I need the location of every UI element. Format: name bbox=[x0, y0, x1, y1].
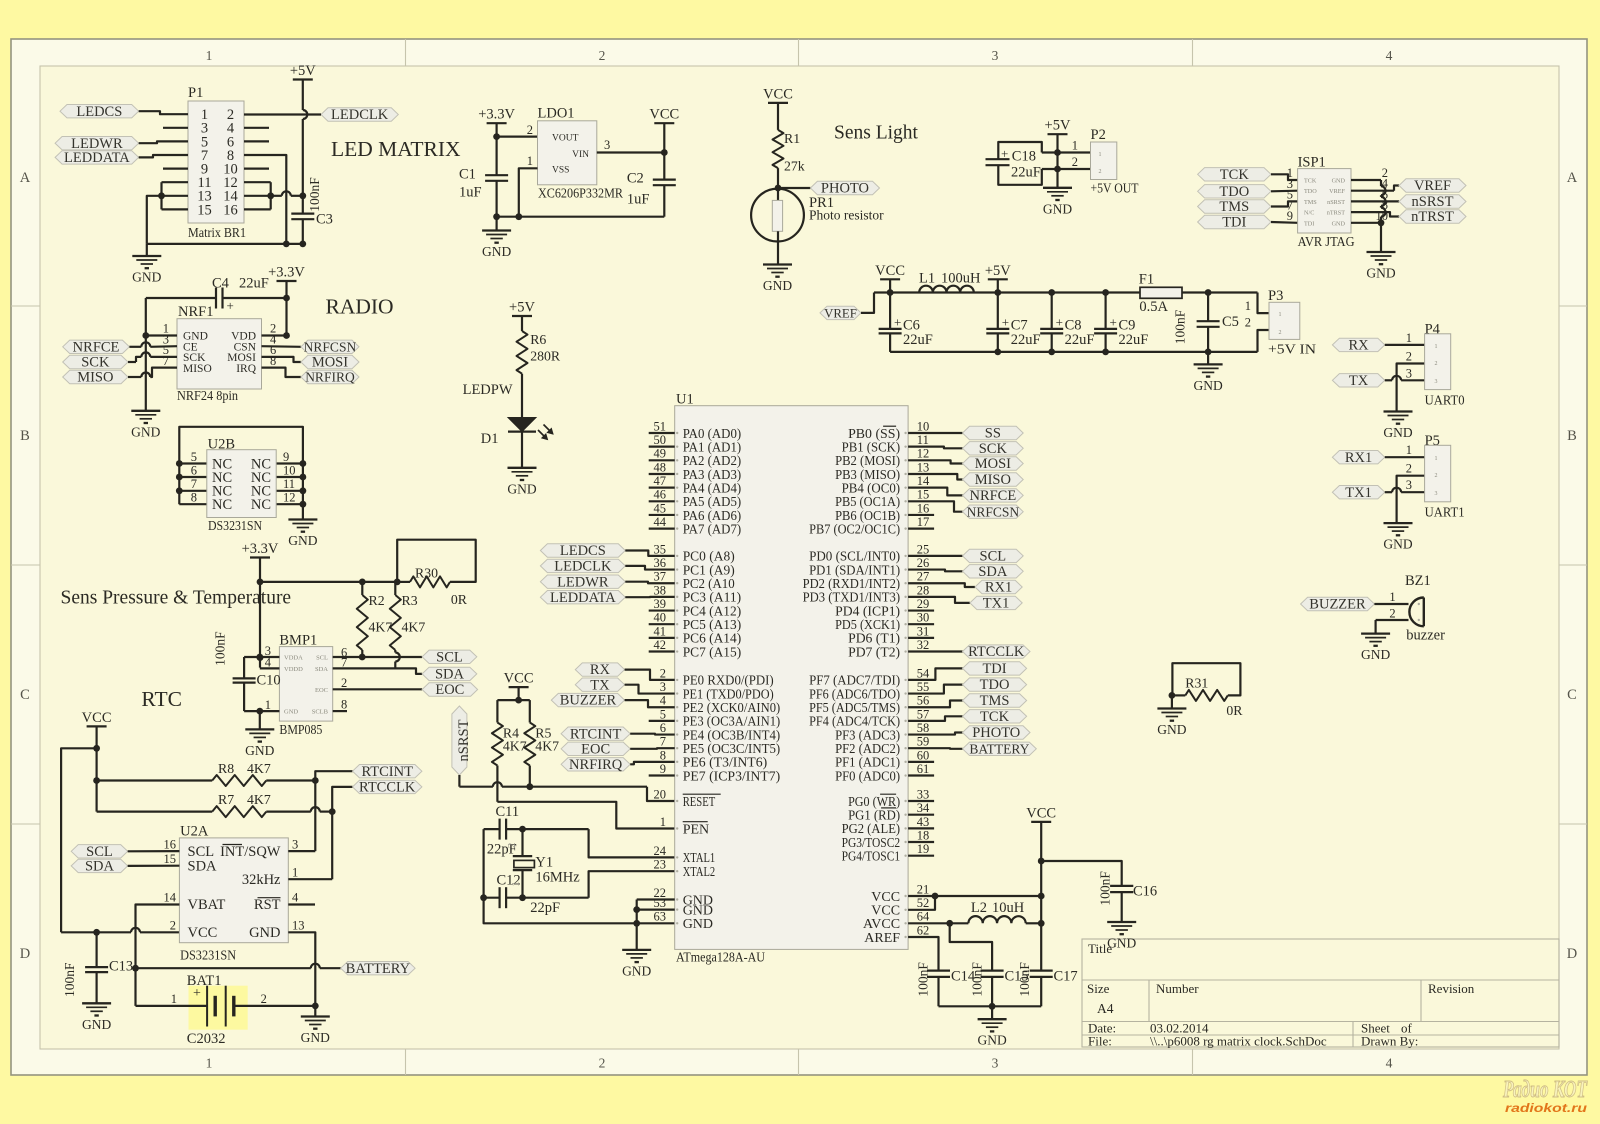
wire crystal top node bbox=[484, 828, 500, 830]
wire BMP1 VDDD pin4 bbox=[260, 667, 280, 669]
svg-text:+: + bbox=[894, 315, 901, 330]
svg-text:2: 2 bbox=[1406, 462, 1412, 476]
wire EOC net bbox=[333, 688, 422, 690]
svg-text:3: 3 bbox=[1435, 379, 1438, 385]
svg-text:L1: L1 bbox=[919, 271, 935, 287]
svg-text:SDA: SDA bbox=[978, 564, 1008, 580]
svg-text:7: 7 bbox=[660, 735, 666, 749]
svg-text:SCL: SCL bbox=[188, 844, 215, 860]
ground bbox=[146, 244, 148, 256]
wire VCC to R4 R5 bbox=[517, 687, 519, 700]
svg-text:SCL: SCL bbox=[86, 844, 113, 860]
svg-text:11: 11 bbox=[283, 477, 295, 491]
wire INT/SQW to RTCINT bbox=[288, 850, 315, 852]
svg-text:NC: NC bbox=[251, 497, 271, 513]
capacitor C1 bbox=[485, 174, 508, 176]
svg-text:15: 15 bbox=[197, 202, 212, 218]
svg-text:1: 1 bbox=[510, 881, 522, 887]
svg-text:280R: 280R bbox=[530, 349, 561, 364]
svg-text:SDA: SDA bbox=[435, 667, 465, 683]
svg-text:GND: GND bbox=[1157, 722, 1186, 737]
ground bbox=[496, 217, 498, 231]
svg-text:SDA: SDA bbox=[85, 859, 115, 875]
net label TX1 bbox=[1332, 486, 1384, 499]
svg-text:24: 24 bbox=[654, 844, 667, 858]
svg-text:10: 10 bbox=[283, 463, 296, 477]
svg-text:2: 2 bbox=[1389, 606, 1395, 620]
svg-text:3: 3 bbox=[1406, 366, 1412, 380]
net label SCL bbox=[71, 845, 128, 858]
svg-text:35: 35 bbox=[654, 542, 667, 556]
net label SCL bbox=[422, 650, 477, 663]
svg-text:TMS: TMS bbox=[980, 693, 1010, 709]
svg-text:0R: 0R bbox=[451, 592, 468, 607]
svg-text:GND: GND bbox=[1383, 425, 1412, 440]
wire TDI to ISP1.9 bbox=[1271, 221, 1298, 224]
svg-text:21: 21 bbox=[917, 882, 930, 896]
svg-text:PE7 (ICP3/INT7): PE7 (ICP3/INT7) bbox=[683, 769, 781, 784]
svg-text:60: 60 bbox=[917, 748, 930, 762]
net label SCK bbox=[908, 447, 962, 449]
wire TX to P4.3 bbox=[1385, 379, 1392, 381]
svg-text:MISO: MISO bbox=[77, 370, 113, 386]
svg-text:SCK: SCK bbox=[979, 441, 1008, 457]
svg-text:GND: GND bbox=[131, 424, 160, 439]
svg-text:R3: R3 bbox=[402, 593, 418, 608]
svg-text:100uH: 100uH bbox=[941, 271, 981, 287]
svg-text:37: 37 bbox=[654, 570, 667, 584]
svg-text:27: 27 bbox=[917, 570, 930, 584]
net label TX bbox=[1332, 374, 1384, 387]
power rail +5V bbox=[874, 291, 1140, 293]
svg-text:100nF: 100nF bbox=[62, 962, 77, 997]
svg-text:P3: P3 bbox=[1268, 288, 1283, 304]
LED D1 bbox=[508, 418, 536, 432]
svg-text:D: D bbox=[1567, 946, 1577, 962]
svg-text:R1: R1 bbox=[784, 131, 800, 146]
svg-text:EOC: EOC bbox=[315, 687, 328, 694]
svg-text:R6: R6 bbox=[530, 332, 546, 347]
svg-text:3: 3 bbox=[604, 138, 610, 152]
svg-text:SCL: SCL bbox=[316, 655, 328, 662]
svg-text:20: 20 bbox=[654, 787, 667, 801]
net label nTRST bbox=[1351, 212, 1399, 216]
wire LEDCS to P1.1 bbox=[139, 111, 188, 114]
resistor R7 4K7 bbox=[97, 810, 213, 812]
svg-text:26: 26 bbox=[917, 556, 930, 570]
svg-text:VOUT: VOUT bbox=[552, 134, 579, 144]
svg-text:NRFIRQ: NRFIRQ bbox=[305, 370, 355, 385]
svg-text:DS3231SN: DS3231SN bbox=[208, 519, 262, 534]
svg-text:BMP085: BMP085 bbox=[279, 723, 322, 738]
svg-text:SCL: SCL bbox=[980, 549, 1007, 565]
svg-text:VCC: VCC bbox=[1026, 805, 1056, 821]
svg-text:57: 57 bbox=[917, 707, 930, 721]
svg-text:R8: R8 bbox=[218, 761, 234, 776]
svg-text:Revision: Revision bbox=[1428, 981, 1475, 996]
svg-text:C2: C2 bbox=[627, 171, 644, 187]
svg-text:2: 2 bbox=[170, 919, 176, 933]
svg-text:27k: 27k bbox=[784, 159, 805, 174]
svg-text:9: 9 bbox=[660, 762, 666, 776]
wire MISO to pin7 bbox=[128, 376, 141, 378]
wire SDA net bbox=[333, 668, 422, 674]
wire VDD bbox=[262, 334, 287, 336]
capacitor C14 100nF bbox=[927, 969, 950, 971]
svg-text:34: 34 bbox=[917, 801, 930, 815]
wire rail to P3.1 bbox=[1258, 293, 1270, 314]
crystal Y1 16MHz bbox=[521, 829, 523, 856]
net label NRFCE bbox=[908, 488, 962, 496]
capacitor C3 bbox=[291, 213, 314, 215]
net label SDA bbox=[422, 667, 477, 680]
wire ISP GND vertical bbox=[1351, 179, 1381, 181]
svg-text:10uH: 10uH bbox=[992, 900, 1025, 916]
svg-text:C16: C16 bbox=[1133, 884, 1157, 900]
wire crystal ground leg bbox=[484, 898, 675, 924]
wire RX1 to P5.1 bbox=[1385, 456, 1425, 458]
svg-text:3: 3 bbox=[992, 1056, 999, 1071]
wire TX to PE1 bbox=[625, 685, 675, 694]
svg-text:22uF: 22uF bbox=[1011, 165, 1041, 181]
svg-text:LEDCS: LEDCS bbox=[76, 104, 122, 120]
svg-text:+5V: +5V bbox=[290, 63, 316, 79]
svg-text:100nF: 100nF bbox=[1097, 871, 1112, 906]
net label RX bbox=[1332, 338, 1384, 351]
wire LEDDATA to PC3 bbox=[625, 596, 674, 599]
zone ticks bbox=[405, 39, 407, 66]
svg-text:BATTERY: BATTERY bbox=[969, 741, 1029, 756]
capacitor C11 22pF bbox=[499, 819, 501, 840]
svg-text:C4: C4 bbox=[212, 276, 230, 292]
wire P5.2 to ground bbox=[1397, 476, 1425, 523]
svg-text:PG4/TOSC1: PG4/TOSC1 bbox=[842, 850, 901, 865]
wire P1 right pins 12-14-16 bus bbox=[244, 181, 271, 183]
svg-text:2: 2 bbox=[1406, 350, 1412, 364]
svg-text:4: 4 bbox=[1386, 48, 1393, 63]
net label nSRST vertical bbox=[452, 706, 467, 775]
svg-text:49: 49 bbox=[654, 447, 667, 461]
wire VCC vertical to C17 bbox=[1040, 822, 1042, 971]
svg-text:GND: GND bbox=[301, 1030, 330, 1045]
svg-text:R2: R2 bbox=[369, 593, 385, 608]
net label LEDWR bbox=[55, 137, 139, 150]
svg-text:TDO: TDO bbox=[980, 677, 1010, 693]
svg-text:Size: Size bbox=[1087, 981, 1110, 996]
svg-text:7: 7 bbox=[341, 656, 347, 670]
svg-text:+3.3V: +3.3V bbox=[268, 265, 305, 281]
wire U2B top bridge bbox=[179, 427, 303, 519]
svg-text:GND: GND bbox=[763, 278, 792, 293]
svg-text:EOC: EOC bbox=[581, 741, 610, 757]
svg-text:RX1: RX1 bbox=[985, 580, 1012, 596]
net label VREF bbox=[1351, 190, 1394, 192]
svg-text:NRFCE: NRFCE bbox=[969, 488, 1016, 504]
svg-text:GND: GND bbox=[1107, 936, 1136, 951]
svg-text:LEDCLK: LEDCLK bbox=[331, 107, 389, 123]
svg-text:RX: RX bbox=[1349, 338, 1370, 354]
net label EOC bbox=[422, 683, 478, 696]
svg-text:3: 3 bbox=[1435, 491, 1438, 497]
svg-text:XTAL1: XTAL1 bbox=[683, 851, 716, 866]
wire NRFIRQ to PE6 bbox=[630, 762, 675, 764]
svg-text:1: 1 bbox=[1279, 312, 1282, 318]
svg-text:47: 47 bbox=[654, 474, 667, 488]
svg-text:4: 4 bbox=[660, 694, 667, 708]
svg-text:2: 2 bbox=[599, 1056, 606, 1071]
svg-text:TCK: TCK bbox=[980, 709, 1010, 725]
net label nSRST bbox=[1351, 200, 1399, 202]
net label RTCINT bbox=[315, 771, 352, 780]
wire +5V to P2.1 bbox=[1056, 134, 1058, 169]
wire TDO to ISP1.3 bbox=[1271, 190, 1298, 193]
net label TMS bbox=[1198, 200, 1271, 213]
svg-text:buzzer: buzzer bbox=[1406, 628, 1445, 644]
svg-text:D1: D1 bbox=[481, 431, 499, 447]
svg-text:1: 1 bbox=[1245, 299, 1251, 313]
svg-text:41: 41 bbox=[654, 624, 667, 638]
ground bbox=[1171, 695, 1173, 708]
svg-text:55: 55 bbox=[917, 680, 930, 694]
svg-text:46: 46 bbox=[654, 488, 667, 502]
ground bbox=[991, 1006, 993, 1019]
svg-text:VDDA: VDDA bbox=[284, 655, 303, 662]
svg-text:45: 45 bbox=[654, 501, 667, 515]
svg-text:C: C bbox=[1567, 687, 1577, 703]
svg-text:16MHz: 16MHz bbox=[535, 870, 580, 886]
wire RX to PE0 bbox=[625, 670, 675, 680]
svg-text:62: 62 bbox=[917, 923, 930, 937]
ground bbox=[1043, 187, 1072, 189]
svg-text:1: 1 bbox=[1072, 139, 1078, 153]
net label NRFCSN bbox=[262, 345, 301, 348]
capacitor C17 100nF bbox=[1030, 969, 1053, 971]
svg-text:100nF: 100nF bbox=[1017, 962, 1032, 997]
wire TMS to ISP1.5 bbox=[1271, 201, 1298, 206]
wire LEDCLK to PC1 bbox=[625, 566, 674, 570]
svg-text:36: 36 bbox=[654, 556, 667, 570]
resistor R30 0R loop bbox=[397, 581, 410, 583]
svg-text:11: 11 bbox=[917, 433, 929, 447]
svg-text:43: 43 bbox=[917, 815, 930, 829]
photo resistor PR1 bbox=[751, 189, 804, 242]
svg-text:22pF: 22pF bbox=[530, 900, 560, 916]
svg-text:VCC: VCC bbox=[875, 263, 905, 279]
svg-text:52: 52 bbox=[917, 896, 930, 910]
svg-text:C18: C18 bbox=[1012, 149, 1036, 165]
svg-text:GND: GND bbox=[1383, 537, 1412, 552]
pin stub RST bbox=[288, 903, 315, 905]
svg-text:C17: C17 bbox=[1054, 969, 1078, 985]
net label PHOTO bbox=[778, 187, 810, 189]
wire XTAL1 bbox=[589, 829, 675, 857]
net label RTCINT bbox=[561, 727, 630, 740]
ground bbox=[1384, 522, 1413, 524]
net label LEDDATA bbox=[55, 151, 139, 164]
svg-text:NRFIRQ: NRFIRQ bbox=[569, 757, 623, 773]
net label PHOTO bbox=[908, 733, 962, 735]
wire LEDCS to PC0 bbox=[625, 551, 674, 556]
svg-text:Sens Pressure & Temperature: Sens Pressure & Temperature bbox=[61, 588, 292, 609]
svg-text:100nF: 100nF bbox=[307, 177, 322, 212]
wire P2.2 to ground bbox=[1042, 168, 1091, 170]
svg-text:C1: C1 bbox=[459, 167, 476, 183]
svg-text:1: 1 bbox=[1406, 443, 1412, 457]
svg-text:nSRST: nSRST bbox=[456, 719, 472, 761]
capacitor C16 100nF bbox=[1110, 885, 1133, 887]
svg-text:14: 14 bbox=[164, 891, 177, 905]
svg-text:SS: SS bbox=[985, 426, 1001, 442]
svg-text:9: 9 bbox=[283, 450, 289, 464]
net label NRFCSN bbox=[908, 501, 962, 511]
ground bbox=[508, 467, 537, 469]
capacitor C12 22pF bbox=[499, 887, 501, 908]
svg-text:1: 1 bbox=[206, 1056, 213, 1071]
svg-text:Радио КОТ: Радио КОТ bbox=[1502, 1077, 1588, 1103]
svg-text:VCC: VCC bbox=[649, 107, 679, 123]
svg-text:29: 29 bbox=[917, 597, 930, 611]
svg-text:42: 42 bbox=[654, 638, 667, 652]
svg-text:2: 2 bbox=[341, 676, 347, 690]
svg-text:BZ1: BZ1 bbox=[1405, 573, 1431, 589]
pin stub SCLB bbox=[333, 710, 347, 712]
svg-text:13: 13 bbox=[917, 460, 930, 474]
capacitor C15 100nF bbox=[981, 969, 1004, 971]
svg-text:R7: R7 bbox=[218, 792, 234, 807]
svg-text:+: + bbox=[193, 986, 201, 1001]
net label NRFIRQ bbox=[262, 368, 301, 377]
wire XTAL2 bbox=[589, 871, 675, 898]
svg-text:1uF: 1uF bbox=[627, 192, 650, 208]
svg-text:TDO: TDO bbox=[1304, 188, 1317, 195]
svg-text:GND: GND bbox=[1361, 647, 1390, 662]
svg-text:SDA: SDA bbox=[188, 858, 218, 874]
net label TDO bbox=[908, 685, 962, 694]
net label RTCCLK bbox=[908, 650, 962, 652]
svg-text:TX1: TX1 bbox=[1345, 485, 1372, 501]
svg-text:100nF: 100nF bbox=[212, 631, 227, 666]
svg-text:100nF: 100nF bbox=[915, 962, 930, 997]
svg-text:LED MATRIX: LED MATRIX bbox=[331, 137, 461, 161]
svg-text:GND: GND bbox=[1043, 201, 1072, 216]
svg-text:1uF: 1uF bbox=[459, 185, 482, 201]
svg-text:1: 1 bbox=[171, 992, 177, 1006]
ground bus under P1 bbox=[147, 243, 303, 245]
svg-text:NRF1: NRF1 bbox=[178, 304, 213, 320]
svg-text:31: 31 bbox=[917, 624, 930, 638]
svg-text:SCLB: SCLB bbox=[312, 709, 329, 716]
svg-text:33: 33 bbox=[917, 787, 930, 801]
wire SCK to pin5 bbox=[128, 361, 136, 363]
svg-text:23: 23 bbox=[654, 858, 667, 872]
svg-text:NRFCE: NRFCE bbox=[73, 339, 120, 355]
svg-text:TX: TX bbox=[1349, 373, 1369, 389]
svg-text:Drawn By:: Drawn By: bbox=[1361, 1034, 1418, 1049]
svg-text:GND: GND bbox=[245, 743, 274, 758]
svg-text:D: D bbox=[20, 946, 30, 962]
svg-text:C11: C11 bbox=[496, 804, 520, 820]
svg-text:Number: Number bbox=[1156, 981, 1199, 996]
svg-text:4K7: 4K7 bbox=[503, 739, 527, 754]
svg-text:GND: GND bbox=[507, 481, 536, 496]
svg-text:56: 56 bbox=[917, 694, 930, 708]
U1 port A pins bbox=[649, 432, 675, 434]
wire VCC pin52 step bbox=[908, 896, 935, 910]
wire TCK to ISP1.1 bbox=[1271, 174, 1298, 180]
wire AVCC branch to C15 bbox=[950, 923, 992, 970]
net label BUZZER bbox=[551, 693, 624, 706]
net label SCL bbox=[908, 555, 962, 557]
svg-text:MISO: MISO bbox=[183, 363, 212, 375]
svg-text:Sens Light: Sens Light bbox=[834, 123, 919, 144]
svg-text:+: + bbox=[1110, 315, 1117, 330]
net label TDI bbox=[1198, 215, 1271, 228]
svg-text:VSS: VSS bbox=[552, 166, 569, 176]
svg-text:63: 63 bbox=[654, 910, 667, 924]
capacitor C13 100nF bbox=[95, 932, 97, 967]
svg-text:TX: TX bbox=[590, 677, 610, 693]
svg-text:1: 1 bbox=[660, 815, 666, 829]
svg-text:LEDPW: LEDPW bbox=[463, 382, 513, 398]
wire BUZZER to BZ1.1 bbox=[1374, 603, 1408, 605]
svg-text:2: 2 bbox=[1099, 169, 1102, 175]
svg-text:+5V: +5V bbox=[509, 300, 535, 316]
svg-text:TMS: TMS bbox=[1219, 199, 1249, 215]
svg-text:B: B bbox=[1567, 428, 1577, 444]
net label SCK bbox=[63, 355, 128, 368]
svg-text:50: 50 bbox=[654, 433, 667, 447]
svg-text:AVR JTAG: AVR JTAG bbox=[1298, 235, 1355, 250]
svg-text:VBAT: VBAT bbox=[188, 897, 226, 913]
svg-text:VREF: VREF bbox=[1329, 188, 1345, 195]
svg-text:L2: L2 bbox=[971, 900, 987, 916]
svg-text:10: 10 bbox=[917, 419, 930, 433]
svg-text:PD7 (T2): PD7 (T2) bbox=[848, 645, 900, 660]
capacitor C4 22uF bbox=[146, 297, 216, 299]
svg-text:PA7 (AD7): PA7 (AD7) bbox=[683, 522, 742, 537]
wire +5V vertical with hop over LEDCLK bbox=[302, 80, 304, 111]
svg-text:LEDWR: LEDWR bbox=[557, 574, 609, 590]
svg-text:GND: GND bbox=[284, 709, 298, 716]
svg-text:File:: File: bbox=[1088, 1034, 1112, 1049]
wire ground bus bbox=[939, 1005, 1042, 1007]
svg-text:R30: R30 bbox=[415, 566, 438, 581]
net label LEDCLK bbox=[540, 559, 625, 572]
capacitor C9 22uF bbox=[1104, 293, 1106, 329]
svg-text:UART1: UART1 bbox=[1425, 506, 1465, 521]
svg-text:2: 2 bbox=[1245, 316, 1251, 330]
svg-text:DS3231SN: DS3231SN bbox=[180, 949, 236, 964]
svg-text:4: 4 bbox=[292, 891, 299, 905]
ground bbox=[131, 410, 160, 412]
svg-text:2: 2 bbox=[1279, 330, 1282, 336]
svg-text:22uF: 22uF bbox=[1065, 332, 1095, 348]
svg-text:+5V OUT: +5V OUT bbox=[1091, 182, 1139, 197]
svg-text:TMS: TMS bbox=[1304, 199, 1317, 206]
svg-text:14: 14 bbox=[917, 474, 930, 488]
svg-text:PF0 (ADC0): PF0 (ADC0) bbox=[835, 769, 900, 784]
svg-text:F1: F1 bbox=[1139, 272, 1154, 288]
wire VCC vertical bbox=[95, 726, 97, 811]
wire GND pin13 down bbox=[288, 932, 315, 1006]
svg-text:RTCINT: RTCINT bbox=[361, 764, 413, 780]
svg-text:44: 44 bbox=[654, 515, 667, 529]
wire EOC to PE5 bbox=[630, 747, 675, 750]
svg-text:54: 54 bbox=[917, 666, 930, 680]
capacitor C5 100nF bbox=[1207, 293, 1209, 322]
svg-text:C10: C10 bbox=[257, 673, 281, 689]
svg-text:INT/SQW: INT/SQW bbox=[220, 844, 281, 860]
